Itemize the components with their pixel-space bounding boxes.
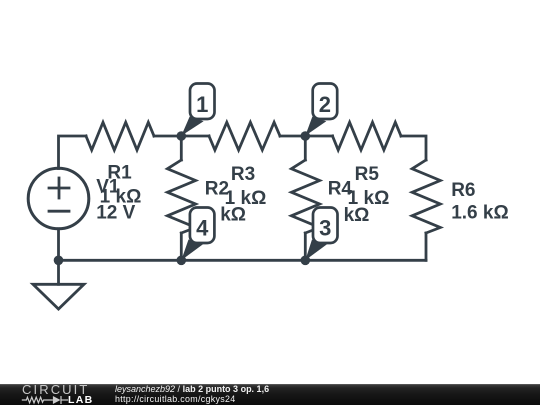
junction node 1 — [177, 131, 187, 141]
svg-text:1.6 kΩ: 1.6 kΩ — [451, 203, 509, 224]
junction node 2 — [301, 131, 311, 141]
wire top-left from V1 to R1 — [59, 136, 87, 169]
wire R3 to node 2 — [280, 135, 305, 138]
wire R4 bottom lead to node 3 — [304, 233, 307, 260]
svg-text:3: 3 — [319, 215, 331, 240]
svg-text:kΩ: kΩ — [220, 205, 246, 226]
footer bar — [0, 384, 540, 405]
junction node 3 — [301, 255, 311, 265]
wire R4 top lead — [304, 136, 307, 160]
resistor R5 — [333, 122, 402, 150]
node 2 callout tail — [305, 117, 326, 136]
node 3 callout tail — [305, 240, 327, 261]
ground — [33, 284, 84, 309]
resistor R2 — [167, 160, 195, 233]
svg-text:kΩ: kΩ — [344, 205, 370, 226]
node 1 callout tail — [181, 117, 203, 136]
wire R2 top lead — [180, 136, 183, 160]
wire node 1 to R3 — [181, 135, 209, 138]
node 4 callout tail — [181, 240, 203, 261]
svg-text:V1: V1 — [96, 177, 120, 198]
CircuitLab logo text CIRCUIT — [22, 385, 89, 395]
resistor R1 — [86, 122, 154, 150]
node 2 label box — [313, 84, 338, 120]
wire bottom rail — [59, 259, 427, 262]
CircuitLab logo resistor-diode symbol — [20, 394, 72, 406]
wire R2 bottom lead to node 4 — [180, 233, 183, 260]
resistor R4 — [291, 160, 319, 233]
svg-text:R5: R5 — [355, 164, 380, 185]
junction node 4 — [177, 255, 187, 265]
junction bottom-left — [54, 255, 64, 265]
svg-text:R2: R2 — [205, 179, 229, 200]
wire ground stub — [57, 260, 60, 284]
CircuitLab logo text LAB — [68, 396, 93, 404]
resistor R3 — [209, 122, 280, 150]
footer credit text — [115, 385, 415, 405]
svg-text:12 V: 12 V — [96, 203, 135, 224]
wire R1 to node 1 — [154, 135, 181, 138]
svg-text:R3: R3 — [231, 164, 255, 185]
svg-text:R4: R4 — [328, 179, 353, 200]
svg-text:4: 4 — [196, 215, 209, 240]
wire V1 bottom lead — [57, 229, 60, 260]
svg-text:2: 2 — [319, 92, 331, 117]
node 1 label box — [190, 84, 215, 120]
resistor R6 — [412, 160, 440, 233]
wire R5 to top-right corner — [401, 136, 426, 160]
svg-text:1: 1 — [196, 92, 208, 117]
voltage source V1 — [28, 168, 89, 229]
wire node 2 to R5 — [305, 135, 332, 138]
svg-text:R6: R6 — [451, 180, 475, 201]
node 4 label box — [190, 208, 215, 244]
wire R6 to bottom rail — [425, 233, 428, 260]
node 3 label box — [313, 208, 338, 244]
